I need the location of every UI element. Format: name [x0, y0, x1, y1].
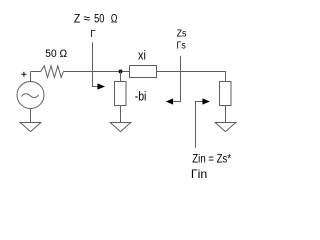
wire source corner to resistor: [31, 71, 41, 73]
title label Z ≈ 50 Ω: [74, 12, 118, 26]
wire resistor to node A: [63, 71, 129, 73]
value label 50 Ω: [45, 48, 67, 60]
ground (load): [215, 123, 236, 132]
wire source stem: [30, 72, 32, 82]
svg-text:Zin = Zs*: Zin = Zs*: [192, 151, 231, 165]
svg-text:Γin: Γin: [191, 167, 207, 181]
load ZL box: [220, 82, 232, 106]
svg-text:≈: ≈: [83, 12, 90, 26]
value label -bi: [135, 89, 147, 103]
ground (shunt): [110, 123, 131, 132]
svg-text:50: 50: [94, 12, 104, 26]
shunt element -bi box: [115, 82, 127, 106]
svg-text:Ω: Ω: [111, 12, 118, 26]
wire xi box to load bend: [157, 72, 226, 82]
node label Γ: [90, 29, 96, 40]
svg-text:Γs: Γs: [177, 40, 186, 51]
label Zin = Zs*: [192, 151, 231, 165]
value label xi: [138, 48, 146, 62]
label Γin: [191, 167, 207, 181]
svg-text:50 Ω: 50 Ω: [45, 48, 67, 60]
ground (source): [20, 123, 41, 132]
resistor 50Ω zigzag: [41, 66, 64, 78]
node A junction dot: [119, 70, 123, 74]
wire source circle to ground: [30, 109, 32, 123]
wire load box to ground: [225, 106, 227, 123]
series element xi box: [130, 66, 157, 78]
wire shunt box to ground: [120, 106, 122, 123]
svg-text:Z: Z: [74, 12, 81, 26]
wire node A down to shunt box: [120, 72, 122, 82]
arrow Γ (looking right into network): [93, 42, 106, 89]
svg-text:xi: xi: [138, 48, 146, 62]
arrow Γs (looking left): [166, 56, 181, 105]
arrow Zin (looking right into load): [196, 98, 210, 147]
svg-text:Γ: Γ: [90, 29, 96, 40]
source VS (ac source circle): [17, 82, 44, 109]
svg-text:-bi: -bi: [135, 89, 147, 103]
svg-text:Zs: Zs: [177, 29, 187, 40]
plus polarity mark: [21, 72, 26, 77]
node label Γs: [177, 40, 186, 51]
node label Zs: [177, 29, 187, 40]
